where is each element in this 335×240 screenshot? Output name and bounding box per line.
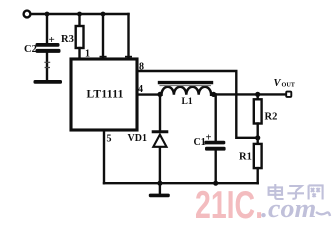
svg-text:OUT: OUT — [282, 82, 296, 89]
wire VD1 lower lead — [159, 147, 161, 183]
svg-text:V: V — [274, 78, 282, 89]
wire pin8 feedback run — [137, 71, 256, 138]
wire R1 bottom lead — [257, 168, 259, 183]
watermark dianziwang 电 — [269, 184, 284, 199]
resistor R1 — [254, 144, 262, 168]
node C2 top junction — [45, 12, 50, 17]
op-amp U1 LT1111 box — [71, 59, 137, 130]
pin2 foot tick — [100, 56, 106, 58]
wire VD1 top lead — [159, 95, 161, 132]
inductor L1 core bars — [160, 81, 212, 84]
corner foot tick — [126, 56, 131, 58]
watermark dianziwang 网 — [309, 185, 323, 199]
svg-text:C1: C1 — [194, 137, 206, 148]
wire R3 to pin1 — [78, 48, 80, 59]
watermark dianziwang 子 — [287, 186, 304, 199]
node C1 bottom junction — [213, 181, 218, 186]
wire C1 top lead — [214, 94, 216, 140]
wire pin4 to L1 — [137, 93, 160, 95]
node feedback junction — [255, 135, 260, 140]
wire R2 bottom lead — [257, 124, 259, 138]
node L1 right junction — [211, 92, 216, 97]
terminal Vout — [286, 92, 291, 97]
wire C2 lower lead — [46, 53, 48, 80]
label Vout — [274, 78, 296, 89]
node R2 top junction — [255, 92, 260, 97]
capacitor C2 — [36, 43, 61, 53]
svg-text:R3: R3 — [61, 34, 74, 45]
node diode bottom junction — [157, 181, 162, 186]
svg-text:C2: C2 — [24, 44, 37, 55]
node pin2 wire junction — [101, 12, 106, 17]
wire pin2 vertical — [102, 14, 104, 59]
svg-text:5: 5 — [107, 134, 112, 145]
input terminal — [24, 11, 31, 18]
svg-text:R2: R2 — [265, 112, 278, 123]
wire top rail — [31, 13, 129, 15]
watermark com tail — [316, 212, 330, 216]
wire R1 top lead — [257, 138, 259, 144]
node L1 left junction — [157, 92, 162, 97]
inductor L1 — [162, 87, 212, 95]
node R3 top junction — [77, 12, 82, 17]
ground C2 — [34, 80, 63, 84]
diode VD1 — [153, 132, 167, 147]
svg-text:.com: .com — [261, 194, 316, 223]
resistor R2 — [254, 99, 262, 123]
wire C1 lower lead — [214, 151, 216, 184]
wire R2 top lead — [257, 94, 259, 99]
ground main — [149, 183, 170, 197]
wire C2 upper lead — [46, 14, 48, 43]
wire pin5 — [103, 130, 105, 183]
svg-text:R1: R1 — [239, 152, 252, 163]
wire output rail — [214, 93, 286, 95]
wire bottom rail — [104, 182, 258, 184]
wire R3 top lead — [78, 14, 80, 26]
svg-text:4: 4 — [138, 84, 143, 95]
svg-text:L1: L1 — [182, 97, 193, 107]
svg-text:21IC.: 21IC. — [195, 184, 263, 227]
wire top rail corner drop — [127, 14, 129, 59]
resistor R3 — [76, 26, 84, 48]
svg-text:VD1: VD1 — [128, 133, 147, 144]
svg-text:+: + — [206, 133, 212, 144]
svg-text:LT1111: LT1111 — [87, 88, 124, 100]
capacitor C1 — [204, 141, 225, 151]
svg-text:+: + — [49, 34, 55, 46]
